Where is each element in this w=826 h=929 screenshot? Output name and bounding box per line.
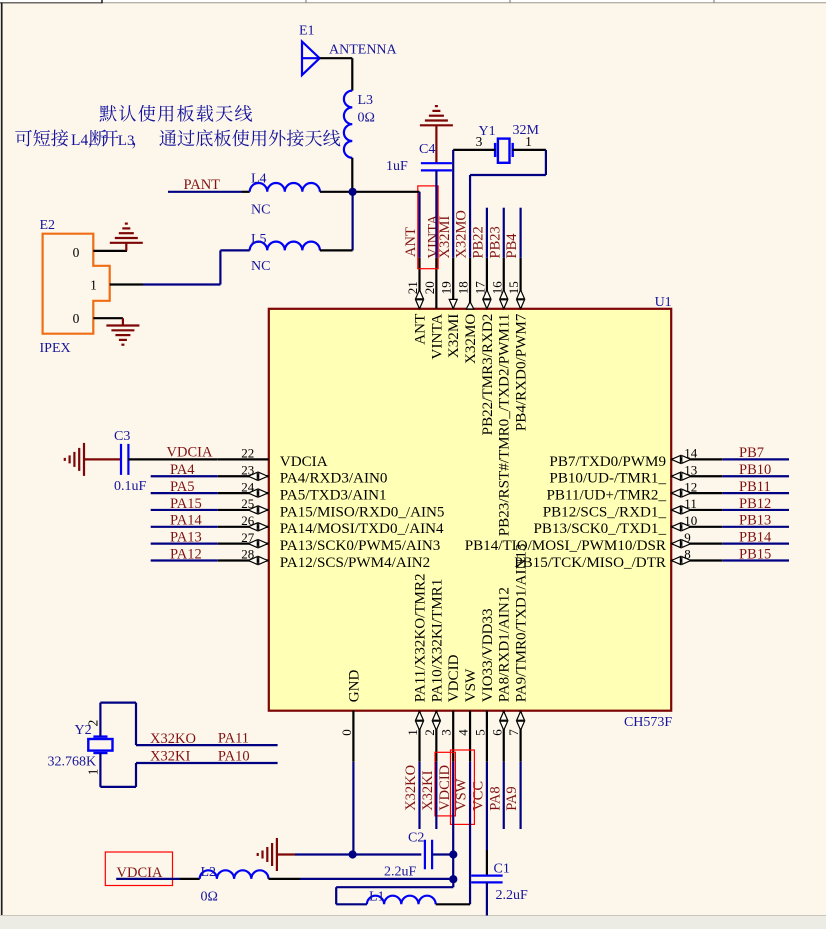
svg-text:X32MO: X32MO [463, 314, 479, 364]
inductor L5 [250, 242, 320, 251]
wire C2 to VDCID node [432, 853, 453, 855]
wire X32MO: Y1 to pin 18 [545, 150, 547, 175]
svg-text:PB13/SCK0_/TXD1_: PB13/SCK0_/TXD1_ [533, 521, 666, 537]
wire X32KI stub [435, 762, 437, 829]
svg-text:X32MI: X32MI [446, 314, 462, 358]
pin 21 ANT (top) [418, 258, 420, 309]
svg-text:7: 7 [506, 729, 521, 736]
wire net PB13 [722, 526, 789, 528]
inductor L2 [200, 870, 269, 879]
inductor L1 [367, 896, 436, 905]
wire PB4 stub [519, 208, 521, 258]
svg-text:PB7: PB7 [739, 445, 764, 461]
bottom gray strip (outside sheet) [0, 916, 826, 929]
pin 7 PA9/TMR0/TXD1/AIN13 (bottom) [519, 711, 521, 762]
svg-text:16: 16 [489, 281, 504, 295]
connector E2 IPEX body [43, 234, 110, 334]
svg-text:22: 22 [241, 446, 254, 461]
svg-text:PA8: PA8 [487, 786, 503, 810]
svg-text:1: 1 [86, 768, 101, 775]
wire ground to C4 [435, 125, 437, 163]
red box around VDCID label [435, 752, 455, 816]
svg-text:PB15/TCK/MISO_/DTR: PB15/TCK/MISO_/DTR [514, 555, 667, 571]
svg-text:L3: L3 [358, 93, 374, 108]
svg-text:GND: GND [346, 669, 362, 702]
pin 3 VDCID (bottom) [452, 711, 454, 762]
node VDCIA/L2/VDCID [449, 875, 457, 883]
sheet border left edge [1, 3, 3, 916]
ground at GND junction [276, 838, 278, 871]
svg-text:PB4: PB4 [504, 233, 520, 259]
wire PANT [168, 191, 242, 193]
wire C4 to pin 20 [435, 171, 437, 258]
red box around VINTA label [418, 186, 438, 269]
wire PB22 stub [486, 208, 488, 258]
wire PA9 stub [519, 762, 521, 829]
net label VDCIA (boxed) [105, 852, 172, 886]
wire L3 to junction [351, 158, 353, 192]
svg-text:PA14: PA14 [170, 513, 202, 529]
inductor L4 [250, 183, 320, 192]
wire L4 to junction [320, 191, 353, 193]
pin 22 VDCIA (left) [218, 458, 269, 460]
wire X32MI: Y1 to pin 19 [452, 150, 454, 258]
svg-text:PB22: PB22 [471, 226, 487, 258]
svg-text:PA9/TMR0/TXD1/AIN13: PA9/TMR0/TXD1/AIN13 [514, 544, 530, 703]
svg-text:2: 2 [422, 729, 437, 736]
pin 23 PA4/RXD3/AIN0 (left) [218, 475, 269, 477]
wire L2 to node [269, 878, 301, 880]
svg-text:X32KI: X32KI [420, 770, 436, 810]
svg-text:2.2uF: 2.2uF [496, 888, 529, 903]
svg-text:PA5: PA5 [170, 479, 194, 495]
pin 24 PA5/TXD3/AIN1 (left) [218, 492, 269, 494]
svg-text:L1: L1 [369, 890, 385, 905]
wire ground stub [277, 853, 295, 855]
inductor L3 [344, 91, 352, 158]
svg-text:2.2uF: 2.2uF [384, 865, 417, 880]
pin 9 PB14/TIO/MOSI_/PWM10/DSR (right) [671, 543, 722, 545]
svg-text:VSW: VSW [463, 668, 479, 702]
node C2/VDCID [449, 850, 457, 858]
svg-text:PB23/RST#/TMR0_/TXD2/PWM11: PB23/RST#/TMR0_/TXD2/PWM11 [497, 314, 513, 537]
ground above C4 [420, 124, 453, 126]
wire net PB15 [722, 559, 789, 561]
svg-text:L4,: L4, [71, 132, 92, 149]
svg-text:PA12/SCS/PWM4/AIN2: PA12/SCS/PWM4/AIN2 [280, 555, 430, 571]
svg-text:PB23: PB23 [487, 226, 503, 258]
wire net PB14 [722, 543, 789, 545]
pin 26 PA14/MOSI/TXD0_/AIN4 (left) [218, 526, 269, 528]
svg-text:PA14/MOSI/TXD0_/AIN4: PA14/MOSI/TXD0_/AIN4 [280, 521, 444, 537]
wire Y2 top route [99, 703, 101, 737]
svg-text:E2: E2 [40, 218, 56, 233]
svg-text:PA11/X32KO/TMR2: PA11/X32KO/TMR2 [412, 573, 428, 702]
svg-text:PB12/SCS_/RXD1_: PB12/SCS_/RXD1_ [543, 504, 667, 520]
svg-text:L5: L5 [251, 232, 267, 247]
wire net PA14 [151, 526, 218, 528]
annotation text line 1 [100, 105, 253, 122]
svg-text:NC: NC [251, 203, 270, 218]
svg-text:CH573F: CH573F [624, 715, 672, 730]
svg-text:IPEX: IPEX [40, 341, 71, 356]
svg-text:VINTA: VINTA [429, 314, 445, 360]
svg-text:0.1uF: 0.1uF [114, 479, 147, 494]
svg-text:E1: E1 [299, 24, 315, 39]
svg-text:20: 20 [422, 281, 437, 294]
pin 8 PB15/TCK/MISO_/DTR (right) [671, 559, 722, 561]
ground at E2 pin 0 bottom [122, 318, 124, 325]
svg-text:PA15/MISO/RXD0_/AIN5: PA15/MISO/RXD0_/AIN5 [280, 504, 445, 520]
svg-text:PANT: PANT [184, 177, 221, 193]
capacitor C3 [120, 444, 122, 475]
svg-text:X32MI: X32MI [437, 216, 453, 259]
pin 11 PB12/SCS_/RXD1_ (right) [671, 509, 722, 511]
svg-text:0Ω: 0Ω [358, 111, 375, 126]
svg-text:PB14: PB14 [739, 529, 772, 545]
svg-text:PB14/TIO/MOSI_/PWM10/DSR: PB14/TIO/MOSI_/PWM10/DSR [465, 538, 667, 554]
node antenna junction [349, 188, 357, 196]
svg-text:0Ω: 0Ω [201, 890, 218, 905]
svg-text:PA11: PA11 [218, 731, 249, 747]
svg-text:PA5/TXD3/AIN1: PA5/TXD3/AIN1 [280, 488, 387, 504]
pin 2? GND (bottom) [352, 711, 354, 762]
svg-text:NC: NC [251, 259, 270, 274]
pin 2 PA10/X32KI/TMR1 (bottom) [435, 711, 437, 762]
svg-text:PB15: PB15 [739, 546, 771, 562]
red box around VSW label [451, 750, 475, 824]
svg-text:VDCIA: VDCIA [167, 444, 213, 460]
svg-text:0: 0 [73, 311, 80, 326]
pin 4 VSW (bottom) [469, 711, 471, 762]
wire VSW column [469, 762, 471, 905]
svg-text:ANT: ANT [412, 314, 428, 345]
node GND junction [349, 850, 357, 858]
wire net PA13 [151, 543, 218, 545]
svg-text:PA13/SCK0/PWM5/AIN3: PA13/SCK0/PWM5/AIN3 [280, 538, 440, 554]
pin 17 PB22/TMR3/RXD2 (top) [486, 258, 488, 309]
svg-text:32.768K: 32.768K [48, 755, 97, 770]
wire GND to C2 [353, 853, 422, 855]
svg-text:PA10/X32KI/TMR1: PA10/X32KI/TMR1 [429, 579, 445, 703]
wire net PA12 [151, 559, 218, 561]
pin 5 VIO33/VDD33 (bottom) [486, 711, 488, 762]
svg-text:X32KI: X32KI [150, 749, 190, 765]
wire net PA15 [151, 509, 218, 511]
antenna E1 [302, 42, 320, 76]
svg-text:PB22/TMR3/RXD2: PB22/TMR3/RXD2 [480, 314, 496, 436]
svg-text:PB12: PB12 [739, 496, 771, 512]
wire PB23 stub [503, 208, 505, 258]
svg-text:0: 0 [339, 729, 354, 736]
svg-text:1: 1 [405, 729, 420, 736]
svg-text:4: 4 [456, 729, 471, 736]
svg-text:PB7/TXD0/PWM9: PB7/TXD0/PWM9 [549, 454, 666, 470]
wire PA8 stub [503, 762, 505, 829]
svg-text:0: 0 [73, 245, 80, 260]
svg-text:L3: L3 [118, 133, 135, 149]
svg-text:PB10: PB10 [739, 462, 771, 478]
svg-text:PB11: PB11 [739, 479, 771, 495]
svg-text:VIO33/VDD33: VIO33/VDD33 [480, 608, 496, 702]
wire VSW to L1 [436, 903, 470, 905]
wire C1 down [486, 882, 488, 915]
pin 15 PB4/RXD0/PWM7 (top) [519, 258, 521, 309]
svg-text:L4: L4 [251, 172, 267, 187]
svg-text:5: 5 [472, 729, 487, 736]
wire net PA4 [151, 475, 218, 477]
wire GND net [295, 853, 353, 855]
wire net PB12 [722, 509, 789, 511]
svg-text:L2: L2 [201, 865, 217, 880]
wire net PB11 [722, 492, 789, 494]
wire X32KO [136, 744, 278, 746]
pin 28 PA12/SCS/PWM4/AIN2 (left) [218, 559, 269, 561]
wire VDCID column [452, 762, 454, 880]
pin 14 PB7/TXD0/PWM9 (right) [671, 458, 722, 460]
pin 16 PB23/RST#/TMR0_/TXD2/PWM11 (top) [503, 258, 505, 309]
crystal Y2 32.768K [93, 735, 107, 737]
wire VDCIA to L2 [116, 878, 180, 880]
svg-text:PA4/RXD3/AIN0: PA4/RXD3/AIN0 [280, 471, 388, 487]
svg-text:VDCIA: VDCIA [280, 454, 328, 470]
svg-text:6: 6 [489, 729, 504, 736]
svg-text:3: 3 [439, 729, 454, 736]
svg-text:1: 1 [90, 278, 97, 293]
wire X32KI [136, 762, 278, 764]
wire L5 right [320, 249, 353, 251]
svg-text:PA4: PA4 [170, 462, 195, 478]
capacitor C2 [424, 840, 426, 870]
wire ground to C3 [84, 458, 121, 460]
pin 6 PA8/RXD1/AIN12 (bottom) [503, 711, 505, 762]
svg-text:2: 2 [86, 720, 101, 727]
svg-text:PB10/UD-/TMR1_: PB10/UD-/TMR1_ [549, 471, 666, 487]
svg-text:PA15: PA15 [170, 496, 202, 512]
crystal Y1 32M [494, 143, 496, 157]
svg-text:PA12: PA12 [170, 546, 202, 562]
wire net PB7 [722, 458, 789, 460]
svg-text:X32KO: X32KO [150, 731, 196, 747]
svg-text:19: 19 [439, 281, 454, 294]
svg-text:PB4/RXD0/PWM7: PB4/RXD0/PWM7 [514, 313, 530, 431]
svg-text:1: 1 [525, 134, 532, 149]
svg-text:U1: U1 [655, 295, 672, 310]
svg-text:X32MO: X32MO [454, 210, 470, 258]
wire VCC column [486, 762, 488, 850]
svg-text:VDCID: VDCID [446, 654, 462, 702]
wire junction down to L5 [352, 192, 354, 251]
svg-text:3: 3 [476, 134, 483, 149]
svg-text:PA13: PA13 [170, 529, 202, 545]
svg-text:18: 18 [456, 281, 471, 294]
svg-text:17: 17 [472, 281, 487, 295]
wire GND pin down [352, 762, 354, 855]
wire X32KO stub [418, 762, 420, 829]
svg-text:C4: C4 [419, 142, 435, 157]
svg-text:PA8/RXD1/AIN12: PA8/RXD1/AIN12 [497, 587, 513, 702]
capacitor C1 [471, 874, 502, 876]
pin 13 PB10/UD-/TMR1_ (right) [671, 475, 722, 477]
svg-text:PA9: PA9 [504, 786, 520, 810]
ground at C3 [83, 443, 85, 476]
wire antenna to L3 [320, 57, 353, 59]
svg-text:ANTENNA: ANTENNA [329, 43, 398, 58]
ground at E2 pin 0 top [125, 243, 127, 251]
ruler ticks [101, 0, 103, 3]
pin 18 X32MO (top) [469, 258, 471, 309]
wire net PA5 [151, 492, 218, 494]
pin 10 PB13/SCK0_/TXD1_ (right) [671, 526, 722, 528]
svg-text:ANT: ANT [403, 227, 419, 257]
wire Y2 bottom route [99, 753, 101, 787]
wire L5 left to E2 [220, 249, 249, 251]
svg-text:PA10: PA10 [218, 749, 250, 765]
pin 25 PA15/MISO/RXD0_/AIN5 (left) [218, 509, 269, 511]
pin 1 PA11/X32KO/TMR2 (bottom) [418, 711, 420, 762]
wire net PB10 [722, 475, 789, 477]
annotation text line 2 [15, 129, 340, 148]
svg-text:PB11/UD+/TMR2_: PB11/UD+/TMR2_ [547, 488, 667, 504]
pin 20 VINTA (top) [435, 258, 437, 309]
wire C3 to pin 22 [128, 458, 217, 460]
IC U1 CH573F body [269, 309, 671, 711]
pin 19 X32MI (top) [452, 258, 454, 309]
wire junction to pin 21 [353, 191, 420, 193]
svg-text:PB13: PB13 [739, 513, 771, 529]
pin 27 PA13/SCK0/PWM5/AIN3 (left) [218, 543, 269, 545]
svg-text:C3: C3 [114, 429, 130, 444]
svg-text:C2: C2 [408, 831, 424, 846]
svg-text:VSW: VSW [454, 778, 470, 811]
pin 12 PB11/UD+/TMR2_ (right) [671, 492, 722, 494]
svg-text:1uF: 1uF [386, 159, 408, 174]
svg-text:X32KO: X32KO [403, 765, 419, 811]
capacitor C4 [421, 162, 452, 164]
svg-text:C1: C1 [494, 862, 510, 877]
wire L1 left/up to VDCIA node [336, 903, 367, 905]
svg-text:VCC: VCC [471, 781, 487, 811]
